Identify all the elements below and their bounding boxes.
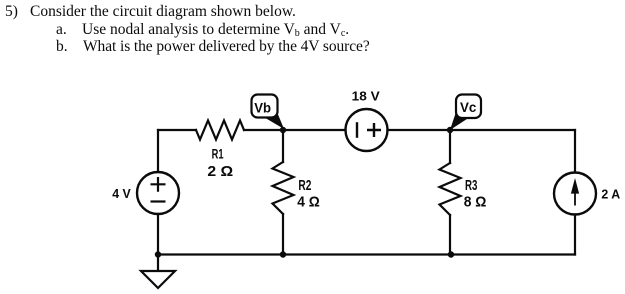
junction R3 bottom rail	[448, 251, 454, 257]
wire left vertical top	[157, 130, 159, 172]
svg-text:8 Ω: 8 Ω	[464, 195, 487, 211]
node Vb callout	[252, 95, 285, 130]
svg-text:4 V: 4 V	[112, 186, 131, 201]
wire node Vb to 18V source	[283, 129, 346, 131]
wire R1 to node Vb	[244, 129, 283, 131]
node Vc callout	[450, 95, 481, 131]
wire R3 to bottom rail	[449, 215, 451, 255]
resistor R1	[196, 121, 244, 140]
node Vc junction dot	[447, 127, 453, 133]
voltage source V1 4V	[137, 172, 179, 214]
wire node Vb down to R2	[282, 130, 284, 162]
ground node junction dot	[155, 251, 161, 257]
svg-text:4 Ω: 4 Ω	[297, 195, 320, 211]
wire right vertical top	[574, 130, 576, 173]
svg-text:Vc: Vc	[460, 100, 476, 116]
svg-text:2 A: 2 A	[601, 187, 620, 202]
svg-text:R1: R1	[212, 146, 224, 162]
voltage source V1 polarity marks	[151, 177, 166, 202]
voltage source V2 18V	[346, 109, 388, 151]
wire right vertical bottom	[574, 215, 576, 255]
ground	[141, 255, 175, 289]
svg-text:Vb: Vb	[254, 100, 271, 116]
voltage source V2 polarity marks	[357, 122, 381, 138]
resistor R2	[273, 162, 294, 214]
wire top rail left to R1	[158, 129, 196, 131]
wire R2 to bottom rail	[282, 214, 284, 255]
junction R2 bottom rail	[280, 251, 286, 257]
resistor R3	[440, 163, 461, 215]
wire node Vc to top-right corner	[450, 129, 575, 131]
wire 18V source to node Vc	[388, 129, 451, 131]
wire 4V source to ground node	[157, 214, 159, 255]
current source I1 arrow	[571, 180, 578, 206]
svg-text:R2: R2	[298, 178, 311, 194]
svg-text:2 Ω: 2 Ω	[207, 164, 233, 180]
svg-text:R3: R3	[465, 178, 477, 194]
wire bottom rail	[158, 253, 575, 255]
current source I1 2A	[554, 173, 596, 215]
wire node Vc down to R3	[449, 130, 451, 163]
node Vb junction dot	[280, 127, 286, 133]
svg-text:18 V: 18 V	[352, 88, 380, 103]
